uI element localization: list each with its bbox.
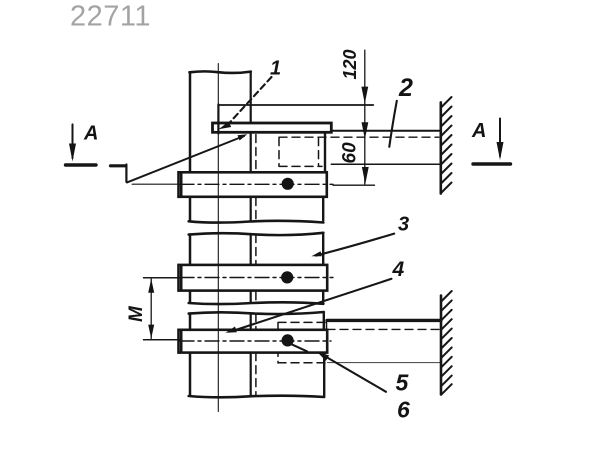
svg-text:22711: 22711 bbox=[70, 1, 151, 33]
svg-text:120: 120 bbox=[340, 49, 360, 79]
svg-text:4: 4 bbox=[392, 258, 405, 281]
svg-text:1: 1 bbox=[270, 58, 281, 80]
svg-text:2: 2 bbox=[398, 74, 413, 102]
svg-text:A: A bbox=[471, 120, 486, 142]
svg-text:60: 60 bbox=[340, 142, 361, 164]
svg-text:6: 6 bbox=[397, 397, 410, 423]
svg-text:M: M bbox=[126, 305, 147, 322]
svg-text:3: 3 bbox=[398, 214, 409, 236]
svg-text:5: 5 bbox=[396, 370, 410, 396]
svg-text:A: A bbox=[83, 123, 98, 145]
